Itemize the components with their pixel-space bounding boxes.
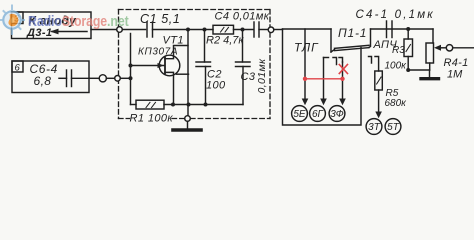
svg-text:R2 4,7к: R2 4,7к (206, 35, 244, 47)
svg-text:100к: 100к (385, 61, 408, 72)
terminal circle 5Т (385, 119, 401, 135)
node R3 top (406, 27, 410, 31)
wiper arrow (440, 47, 446, 49)
fixed contact hooks (right pole) (369, 57, 372, 64)
node ground tap (187, 103, 191, 107)
wire connector to border (107, 77, 115, 79)
ground tap wire (187, 105, 189, 116)
svg-text:КП307А: КП307А (138, 47, 178, 58)
node C2 top (203, 28, 207, 32)
transistor VT1 КП307А (159, 55, 180, 76)
terminal circle on dashed border (top) (117, 27, 123, 33)
capacitor C3 (242, 30, 244, 63)
svg-text:6Г: 6Г (312, 109, 325, 120)
svg-text:R1 100к: R1 100к (130, 113, 174, 125)
capacitor C4-1 (386, 21, 388, 38)
node C2 bottom (204, 103, 208, 107)
resistor R3 (407, 29, 409, 39)
svg-text:ТЛГ: ТЛГ (294, 41, 319, 55)
terminal circle 5Е (292, 106, 308, 122)
node ground join (406, 68, 410, 72)
wire: box to C1 (91, 29, 146, 31)
svg-text:П1-1: П1-1 (338, 26, 367, 40)
watermark RadioStorage.net (0, 5, 129, 36)
dashed shield box (119, 10, 271, 119)
bottom rail (131, 104, 137, 106)
arrow to Д3-1 (52, 31, 87, 33)
gate rail (left vertical) (130, 34, 132, 105)
node source (171, 103, 175, 107)
wire to 6Г (fixed contact) (324, 57, 329, 59)
terminal circle on dashed border (left lower) (115, 76, 121, 82)
connector circle (99, 75, 106, 82)
wire АПЧ to C4-1 to R4-1 (371, 28, 434, 30)
resistor R5 (375, 71, 383, 90)
svg-text:680к: 680к (385, 98, 408, 109)
pivot АПЧ pole (369, 29, 371, 47)
svg-text:С4-1 0,1мк: С4-1 0,1мк (356, 9, 435, 21)
resistor R2 (213, 25, 234, 34)
terminal circle on dashed border (right) (268, 27, 274, 33)
arrow to 3Т (378, 90, 380, 113)
switch П1-1 lever bar (335, 45, 370, 48)
switch П1-1 pivot (ТЛГ pole) (330, 29, 332, 52)
box: К аноду Д3-1 (12, 12, 92, 39)
logo (0, 5, 25, 36)
source connection (165, 72, 174, 104)
wire C4 to border (259, 29, 268, 31)
gate wire (131, 65, 165, 67)
resistor R1 (136, 100, 164, 109)
svg-text:3Ф: 3Ф (330, 109, 344, 120)
wire: right terminal into switch box (274, 29, 283, 31)
red cut mark X (339, 65, 347, 74)
capacitor C1 (146, 22, 148, 37)
node drain (186, 28, 190, 32)
capacitor C6-4 (59, 77, 67, 79)
wire to connector (89, 77, 99, 79)
fixed contact hook (left pole) (333, 58, 337, 65)
terminal circle on dashed border (bottom) (185, 116, 191, 122)
box: С6-4 (12, 61, 89, 93)
terminal labels (293, 109, 399, 133)
wire R2 to C4 (234, 29, 254, 31)
capacitor C2 (204, 30, 206, 63)
ground symbol (187, 121, 189, 128)
svg-text:0,01мк: 0,01мк (256, 58, 268, 94)
resistor R4-1 (variable) (432, 29, 434, 43)
svg-text:VT1: VT1 (163, 35, 184, 47)
wire into box to gate rail (120, 77, 130, 79)
terminal circle 6Г (310, 106, 326, 122)
wiper terminal circle (446, 45, 452, 51)
terminal circle 3Ф (329, 106, 345, 122)
wire to 5Е (304, 29, 306, 100)
wire C1 to R2 (153, 29, 214, 31)
pin square 3 (12, 12, 24, 24)
svg-text:5Е: 5Е (293, 109, 306, 120)
capacitor C4 (253, 22, 255, 37)
svg-text:3Т: 3Т (368, 122, 381, 133)
terminal circle 3Т (366, 119, 382, 135)
drain connection (165, 46, 188, 59)
svg-text:R4-1: R4-1 (444, 57, 469, 69)
svg-text:6,8: 6,8 (34, 74, 52, 88)
svg-text:100: 100 (206, 80, 226, 92)
node C3 top (241, 28, 245, 32)
node C6 input (129, 76, 133, 80)
pin square 6 (12, 61, 23, 72)
svg-text:6: 6 (15, 63, 21, 74)
substrate connection (177, 73, 189, 75)
svg-text:1М: 1М (447, 69, 463, 81)
wire to 3Ф (fixed contact) (339, 58, 343, 63)
red jumper annotation (303, 65, 348, 82)
node gate (129, 64, 133, 68)
svg-text:R3: R3 (392, 45, 405, 56)
ground symbol (right) (429, 70, 431, 77)
svg-text:C3: C3 (241, 71, 256, 83)
svg-text:С4 0,01мк: С4 0,01мк (215, 11, 270, 23)
switch unit solid box (283, 29, 362, 125)
svg-text:5Т: 5Т (387, 122, 400, 133)
svg-text:RadioStorage.net: RadioStorage.net (28, 13, 129, 29)
svg-text:C1 5,1: C1 5,1 (140, 12, 180, 26)
